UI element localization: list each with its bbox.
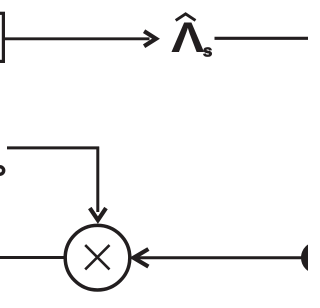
wire: right node to multiplier [136,256,302,259]
node dot (cropped at right edge) [301,242,320,274]
arrowhead (left) into multiplier [134,249,149,267]
hat (circumflex) over Lambda [176,14,196,21]
multiplier times sign [85,245,109,269]
feedback wire: horizontal run [7,146,99,149]
wire: Lambda_s to right edge [215,37,309,40]
arrowhead (down) into multiplier [90,208,106,220]
feedback wire: vertical drop to multiplier [96,147,99,213]
wire: block B1 to symbol Lambda_s [5,37,150,40]
multiplier U1 (circle) [65,225,130,290]
svg-text:s: s [203,42,212,61]
label o (cropped at left edge) [0,167,4,175]
block B1 (cropped at left edge) [0,13,3,61]
input wire: left edge to multiplier [0,256,65,259]
arrowhead (right) into Lambda_s [144,31,156,46]
